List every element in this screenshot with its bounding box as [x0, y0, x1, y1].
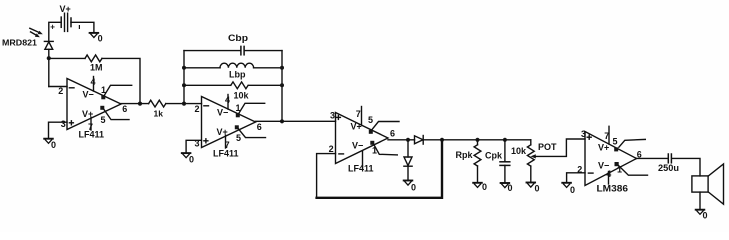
svg-text:6: 6 [390, 128, 395, 138]
wire U2 output to op-amp U3 pin 3 [256, 120, 336, 122]
ground 0 (U2 pin 3) [182, 153, 194, 164]
node D junction [406, 138, 410, 142]
wire 10k branch left [184, 84, 231, 86]
svg-text:V+: V+ [60, 4, 71, 14]
wire Cpk branch [504, 140, 506, 162]
junction dots on left rail [182, 66, 186, 70]
op-amp U4 LM386 [577, 126, 647, 194]
ground 0 (pot) [527, 183, 540, 194]
svg-text:0: 0 [703, 211, 708, 221]
node E junction [440, 138, 444, 142]
wire battery right to ground [71, 22, 94, 32]
pin 1 [236, 113, 240, 117]
wire photodiode to node A [48, 49, 50, 86]
svg-text:Rpk: Rpk [456, 150, 474, 160]
svg-text:Lbp: Lbp [229, 69, 246, 79]
svg-text:3: 3 [61, 119, 66, 129]
wire battery left to photodiode [49, 22, 61, 41]
wire U4 pin 2 to ground [567, 173, 585, 183]
wire node A to op-amp U1 pin 2 [49, 86, 67, 88]
svg-text:V−: V− [352, 141, 363, 151]
ground 0 (D3) [404, 181, 416, 193]
svg-text:2: 2 [58, 86, 63, 96]
pin 5 [100, 106, 104, 110]
ground 0 (Cpk) [501, 183, 513, 193]
wire U4 output to capacitor C2 [637, 157, 668, 159]
wire Lbp branch right [254, 67, 282, 69]
node A junction [47, 56, 51, 60]
svg-text:1k: 1k [154, 109, 164, 119]
svg-text:0: 0 [535, 183, 540, 193]
svg-text:2: 2 [195, 104, 200, 114]
svg-text:V−: V− [83, 90, 94, 100]
wire R2 to op-amp U2 pin 2 [166, 103, 202, 105]
wire Cbp top branch right [244, 50, 282, 52]
photodiode D1 MRD821 [2, 28, 53, 49]
wire D2 to node E [423, 139, 442, 141]
wire D3 to ground [407, 166, 409, 180]
resistor R3 10k [231, 82, 250, 101]
wire U1 output to resistor R2 [121, 103, 149, 105]
svg-text:6: 6 [122, 104, 127, 114]
svg-text:1M: 1M [90, 63, 103, 73]
svg-text:5: 5 [613, 137, 618, 147]
wire resistor R1 to output node B [102, 58, 140, 103]
pin 4 [608, 172, 610, 185]
svg-text:MRD821: MRD821 [2, 38, 37, 48]
svg-text:V+: V+ [351, 122, 362, 132]
wire Cpk to ground [504, 165, 506, 182]
ground 0 (U1 pin 3) [44, 139, 56, 150]
wire Rpk to ground [477, 166, 479, 182]
resistor Rpk [456, 140, 481, 166]
svg-text:LF411: LF411 [79, 130, 105, 140]
svg-text:1: 1 [617, 164, 622, 174]
wire node A to resistor R1 [49, 57, 85, 59]
junction dots on right rail [280, 66, 284, 70]
svg-text:Cbp: Cbp [228, 33, 249, 43]
wire 10k branch right [249, 84, 282, 86]
wire C2 to speaker [672, 158, 700, 176]
resistor R2 1k [149, 100, 166, 118]
svg-text:0: 0 [189, 154, 194, 164]
svg-text:0: 0 [570, 185, 575, 195]
pin 1 [615, 162, 619, 166]
wire node D to diode D3 [407, 140, 409, 157]
wire U3 output to diode D2 [388, 139, 415, 141]
battery V1 V+ [50, 4, 79, 32]
junction dot Rpk [475, 138, 479, 142]
pin 5 [614, 147, 618, 151]
svg-text:1: 1 [372, 145, 377, 155]
pin 7 [608, 126, 610, 144]
svg-text:0: 0 [508, 183, 513, 193]
ground 0 (Rpk) [473, 182, 487, 192]
svg-text:250u: 250u [658, 163, 679, 173]
pin 4 [227, 95, 229, 110]
svg-text:10k: 10k [511, 146, 527, 156]
svg-text:4: 4 [606, 169, 611, 179]
svg-text:0: 0 [411, 182, 416, 192]
pin 4 [362, 151, 364, 168]
wire U1 pin 3 to ground [49, 122, 68, 138]
svg-text:Cpk: Cpk [485, 150, 503, 160]
diode D3 (clamp to ground) [404, 157, 412, 166]
op-amp U3 LF411 [329, 107, 399, 174]
junction dot Cpk [503, 138, 507, 142]
node C junction (left feedback rail) [182, 102, 186, 106]
capacitor C2 250u [658, 154, 679, 173]
svg-text:5: 5 [101, 115, 106, 125]
wire Cbp top branch left [184, 50, 241, 52]
diode D2 (series) [415, 136, 424, 145]
svg-text:LM386: LM386 [597, 183, 629, 194]
potentiometer 10k POT [511, 139, 585, 166]
svg-text:5: 5 [236, 133, 241, 143]
svg-text:4: 4 [225, 95, 230, 105]
pin 1 [101, 95, 105, 99]
wire left feedback rail [183, 51, 185, 104]
speaker LS1 [692, 164, 724, 204]
svg-text:3: 3 [581, 129, 586, 139]
svg-text:4: 4 [91, 77, 96, 87]
svg-text:V−: V− [217, 108, 228, 118]
pin 4 [93, 77, 95, 92]
svg-text:10k: 10k [234, 91, 250, 101]
wire U2 pin 3 to ground [186, 140, 201, 152]
svg-text:+: + [50, 23, 55, 32]
svg-text:POT: POT [538, 142, 557, 152]
ground 0 (U4 pin 2) [562, 183, 575, 195]
ground 0 (battery) [90, 33, 103, 44]
ground 0 (speaker) [696, 210, 708, 221]
pin 7 [361, 107, 363, 126]
svg-text:LF411: LF411 [213, 148, 239, 158]
wire right feedback rail [281, 51, 283, 122]
wire pot to ground [530, 166, 532, 182]
pin 7 [225, 135, 227, 148]
wire speaker to ground [699, 192, 701, 209]
pin 1 [370, 141, 374, 145]
svg-text:0: 0 [98, 33, 103, 43]
op-amp U2 LF411 [195, 95, 266, 159]
op-amp U1 LF411 [58, 77, 132, 140]
pin 7 [90, 117, 92, 130]
capacitor Cbp [228, 33, 249, 55]
svg-text:7: 7 [604, 131, 609, 141]
inductor Lbp [220, 63, 254, 79]
pin 5 [235, 125, 239, 129]
svg-text:0: 0 [51, 140, 56, 150]
pin 5 [369, 130, 373, 134]
node B junction [138, 102, 142, 106]
wire node E to peak detector network [442, 139, 531, 141]
svg-text:LF411: LF411 [348, 164, 374, 174]
wire feedback node E to U3 pin 2 [317, 140, 442, 198]
svg-text:3: 3 [330, 111, 335, 121]
capacitor Cpk [485, 150, 510, 165]
svg-text:0: 0 [482, 182, 487, 192]
wire Lbp branch left [184, 67, 220, 69]
svg-text:2: 2 [329, 144, 334, 154]
svg-text:6: 6 [257, 122, 262, 132]
svg-text:5: 5 [368, 115, 373, 125]
resistor R1 1M [85, 55, 103, 73]
svg-text:V+: V+ [598, 142, 609, 152]
svg-text:7: 7 [356, 109, 361, 119]
